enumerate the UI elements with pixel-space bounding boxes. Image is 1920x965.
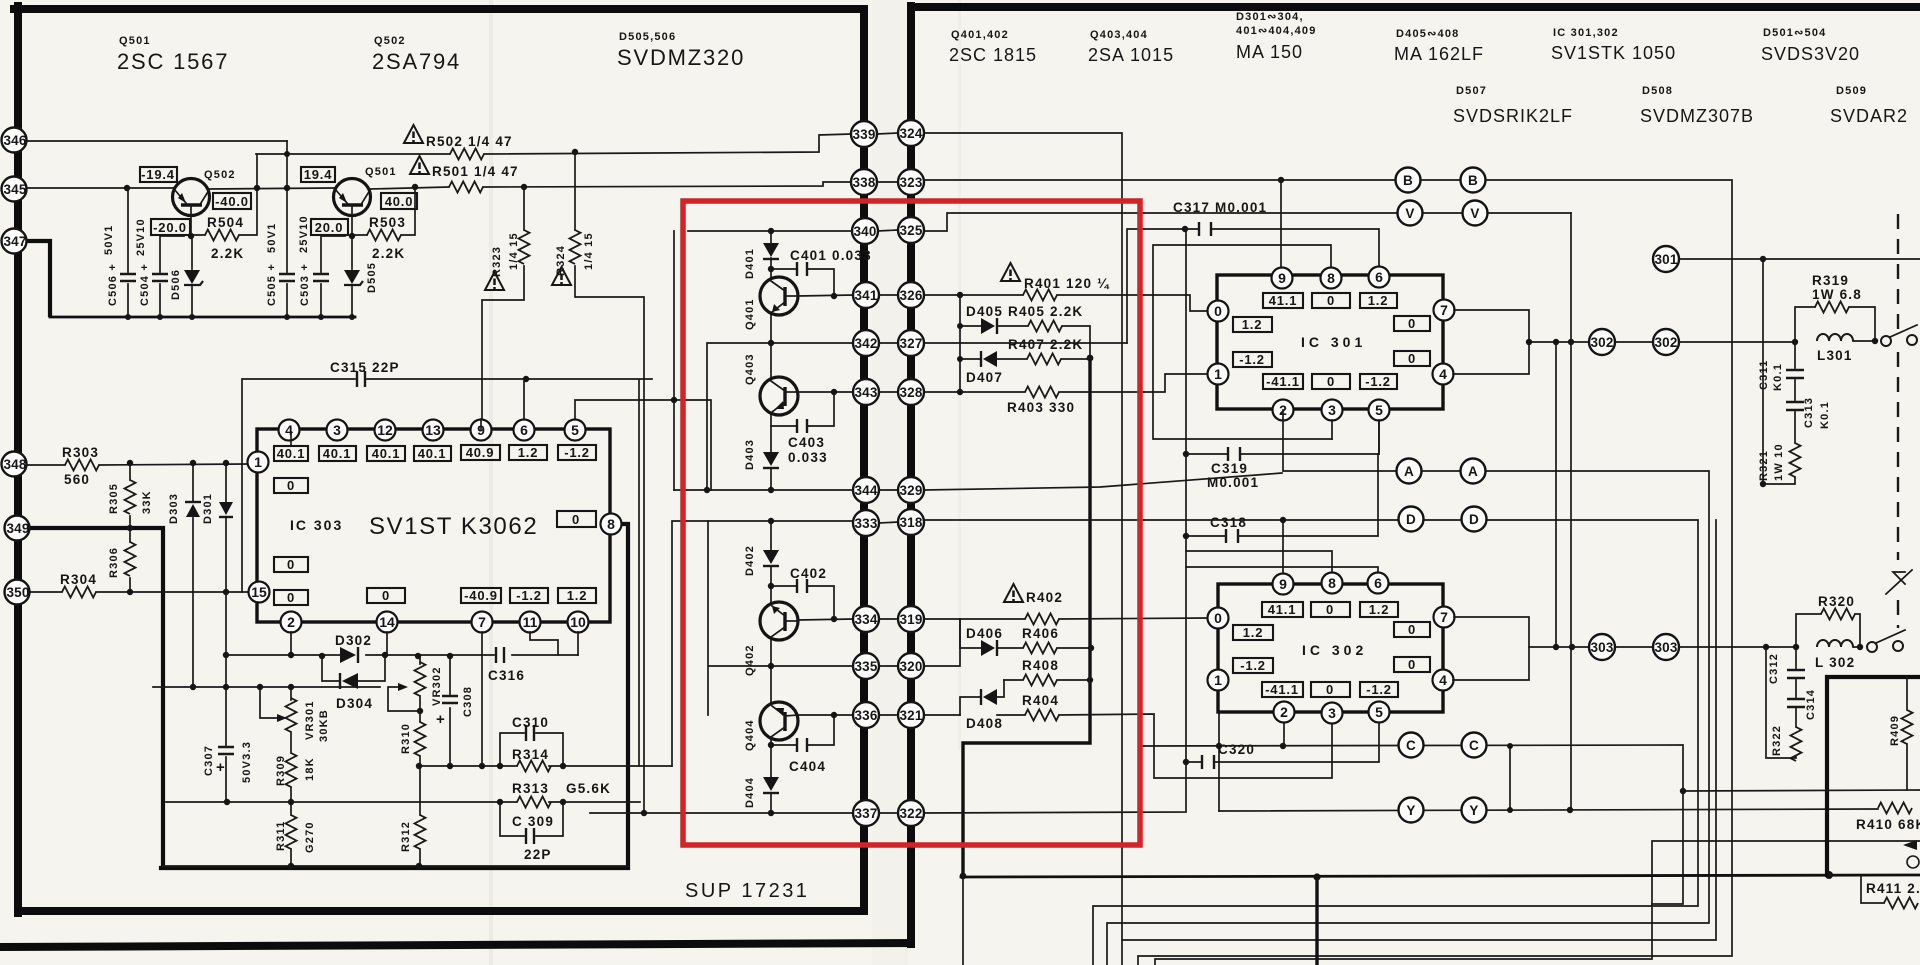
IC302 pin 8 — [1322, 573, 1343, 594]
svg-text:R410 68K: R410 68K — [1856, 817, 1920, 832]
svg-text:50V1: 50V1 — [266, 223, 278, 254]
connector 336 — [853, 702, 879, 728]
svg-text:7: 7 — [1440, 609, 1448, 625]
R313 — [512, 781, 611, 808]
svg-text:K0.1: K0.1 — [1819, 401, 1831, 429]
capacitor C401 — [771, 248, 872, 296]
svg-text:0: 0 — [287, 557, 295, 572]
resistor R502 — [404, 125, 513, 160]
svg-text:Q403: Q403 — [744, 353, 756, 385]
svg-text:-1.2: -1.2 — [564, 445, 590, 460]
svg-text:347: 347 — [3, 234, 26, 249]
301 line — [1679, 259, 1920, 484]
IC303 pin 14 — [377, 612, 398, 633]
connector 323 — [898, 169, 924, 195]
svg-text:5: 5 — [571, 422, 579, 438]
IC302 box 1.2 left — [1233, 625, 1273, 640]
transistor Q502 — [173, 179, 210, 237]
IC301 pin 1 — [1208, 364, 1229, 385]
svg-text:C504 +: C504 + — [139, 263, 151, 306]
IC303 pin 15 — [249, 582, 270, 603]
IC302 box 0 right up — [1394, 622, 1430, 637]
wire row 343 — [798, 391, 853, 393]
svg-text:R322: R322 — [1771, 725, 1783, 756]
main column upper — [770, 231, 772, 490]
connector 347 — [2, 229, 27, 254]
IC302 pin 9 — [1273, 574, 1294, 595]
svg-text:40.1: 40.1 — [323, 446, 352, 461]
wire row 340 — [674, 231, 853, 490]
IC303 value box 1.2 bottom — [558, 588, 596, 603]
thick bottom rail left — [161, 524, 628, 868]
capacitor C317 — [1173, 200, 1267, 236]
svg-text:346: 346 — [3, 133, 26, 148]
connector 334 — [853, 606, 879, 632]
capacitor C307 — [203, 592, 253, 802]
pin6 wire — [523, 379, 525, 419]
D302 line — [226, 654, 578, 656]
connector 349 — [5, 516, 30, 541]
red rectangle — [683, 201, 1140, 845]
svg-text:0: 0 — [1326, 682, 1334, 697]
wire B row — [924, 180, 1732, 965]
pin6 IC302 riser — [1186, 567, 1378, 583]
wire D row — [924, 520, 1698, 965]
IC303 value box 0 right — [557, 511, 596, 527]
wire R502 row — [256, 134, 851, 154]
svg-text:0: 0 — [1214, 303, 1222, 319]
svg-text:-40.9: -40.9 — [464, 588, 498, 603]
svg-text:1: 1 — [1214, 366, 1222, 382]
IC301 pin 4 — [1433, 364, 1454, 385]
svg-text:R406: R406 — [1022, 626, 1059, 641]
svg-text:C403: C403 — [788, 435, 825, 450]
svg-text:M0.001: M0.001 — [1207, 475, 1259, 490]
Y circles — [1399, 798, 1487, 823]
svg-text:R504: R504 — [207, 215, 244, 230]
C312 chain — [1768, 647, 1817, 727]
capacitor C404 — [771, 715, 834, 774]
label Q401,402 2SC1815 — [949, 29, 1037, 65]
svg-text:IC 301: IC 301 — [1301, 334, 1366, 350]
left sheet bottom border — [18, 907, 864, 915]
resistor R401 — [1001, 263, 1110, 301]
connector 333 — [853, 510, 879, 536]
IC303 value box -40.9 — [461, 588, 501, 603]
wire 349 thick — [29, 528, 163, 866]
svg-text:R320: R320 — [1818, 594, 1855, 609]
svg-text:336: 336 — [854, 708, 877, 723]
VR301 — [286, 687, 331, 753]
svg-text:IC 303: IC 303 — [290, 517, 343, 533]
A line — [1107, 410, 1709, 965]
box 40.0 — [381, 193, 417, 209]
connector 339 — [851, 121, 877, 147]
svg-text:D302: D302 — [335, 633, 372, 648]
left sheet left border — [14, 6, 22, 913]
IC303 box — [257, 429, 610, 622]
C309 loop — [500, 802, 563, 862]
resistor R501 — [365, 156, 519, 193]
capacitor C503 — [313, 236, 345, 317]
connector 324 — [898, 120, 924, 146]
connector 319 — [898, 606, 924, 632]
IC303 pin 10 — [568, 612, 589, 633]
svg-text:344: 344 — [854, 483, 877, 498]
svg-text:340: 340 — [853, 224, 876, 239]
svg-text:K0.1: K0.1 — [1772, 363, 1784, 391]
svg-text:D402: D402 — [744, 545, 756, 576]
svg-text:R324: R324 — [555, 245, 567, 276]
svg-text:D505: D505 — [366, 262, 378, 293]
svg-text:560: 560 — [64, 472, 90, 487]
svg-text:5: 5 — [1375, 704, 1383, 720]
svg-text:8: 8 — [607, 516, 615, 532]
R319 parallel — [1795, 273, 1875, 341]
svg-text:D507: D507 — [1456, 85, 1487, 97]
svg-text:D509: D509 — [1836, 85, 1867, 97]
harness filler — [1122, 520, 1716, 940]
svg-text:10: 10 — [570, 614, 586, 630]
svg-text:0: 0 — [1408, 622, 1416, 637]
wire row 334 — [798, 619, 853, 620]
IC303 pin 5 — [565, 420, 586, 441]
svg-text:40.1: 40.1 — [418, 446, 447, 461]
svg-text:-1.2: -1.2 — [1239, 352, 1265, 367]
svg-text:4: 4 — [285, 422, 293, 438]
svg-text:C506 +: C506 + — [107, 263, 119, 306]
capacitor C315 — [242, 360, 652, 766]
svg-text:8: 8 — [1328, 575, 1336, 591]
svg-text:D505,506: D505,506 — [619, 31, 676, 43]
svg-text:335: 335 — [854, 659, 877, 674]
wire R313 row — [166, 801, 640, 803]
svg-text:D508: D508 — [1642, 85, 1673, 97]
svg-text:D403: D403 — [744, 439, 756, 470]
svg-text:Q501: Q501 — [365, 166, 397, 178]
y790 line — [1683, 790, 1920, 791]
svg-text:MA 150: MA 150 — [1236, 42, 1303, 62]
bus pair links — [877, 133, 898, 813]
svg-text:333: 333 — [854, 516, 877, 531]
svg-text:D303: D303 — [168, 493, 180, 524]
svg-text:22P: 22P — [524, 847, 552, 862]
capacitor C320 — [1186, 723, 1379, 769]
ground rail — [50, 316, 355, 319]
svg-text:25V10: 25V10 — [298, 215, 310, 253]
svg-text:C319: C319 — [1211, 461, 1248, 476]
thin drop below C320 — [962, 876, 964, 965]
svg-text:D404: D404 — [744, 777, 756, 808]
switch 302 — [1881, 325, 1917, 346]
transistor Q501 — [334, 179, 371, 237]
svg-text:D301: D301 — [202, 493, 214, 524]
svg-text:3: 3 — [1328, 705, 1336, 721]
IC302 pin 6 — [1368, 573, 1389, 594]
svg-text:R411 2.2: R411 2.2 — [1866, 881, 1920, 896]
wire C row — [1141, 745, 1683, 904]
svg-text:1: 1 — [1214, 672, 1222, 688]
IC301 box 0 right low — [1394, 351, 1430, 366]
svg-text:L301: L301 — [1817, 348, 1853, 363]
svg-text:18K: 18K — [304, 757, 316, 781]
wire 329 row — [924, 245, 1332, 490]
wire row 321 continuation — [924, 714, 1332, 778]
wire row 348 — [27, 464, 248, 465]
dots row348 — [127, 376, 529, 690]
svg-text:50V3.3: 50V3.3 — [241, 741, 253, 783]
connector 320 — [898, 653, 924, 679]
svg-text:+: + — [216, 759, 225, 776]
svg-text:-41.1: -41.1 — [1266, 374, 1300, 389]
resistor R303 — [62, 445, 99, 487]
IC302 boxes bottom — [1262, 682, 1398, 697]
IC303 pin 11 — [520, 612, 541, 633]
capacitor C403 — [771, 392, 834, 465]
svg-text:C317 M0.001: C317 M0.001 — [1173, 200, 1267, 215]
B circles — [1396, 168, 1486, 193]
wire 327 row — [924, 342, 1127, 344]
IC302 right loop — [1453, 617, 1529, 680]
svg-text:325: 325 — [899, 223, 922, 238]
svg-text:G5.6K: G5.6K — [566, 781, 611, 796]
IC302 pin 7 — [1434, 607, 1455, 628]
svg-text:328: 328 — [899, 385, 922, 400]
svg-text:324: 324 — [899, 126, 922, 141]
svg-text:0: 0 — [1408, 316, 1416, 331]
IC303 pin 4 — [279, 420, 300, 441]
svg-text:D: D — [1406, 512, 1416, 527]
svg-text:318: 318 — [899, 515, 922, 530]
IC303 pin 7 — [472, 612, 493, 633]
wire 324 long — [924, 133, 1122, 965]
svg-text:R403 330: R403 330 — [1007, 400, 1075, 415]
thick drop right — [1315, 877, 1318, 965]
svg-text:-1.2: -1.2 — [1365, 374, 1391, 389]
svg-text:R319: R319 — [1812, 273, 1849, 288]
svg-text:337: 337 — [854, 806, 877, 821]
svg-text:1.2: 1.2 — [518, 445, 538, 460]
svg-text:326: 326 — [899, 288, 922, 303]
svg-text:0.033: 0.033 — [788, 450, 828, 465]
svg-text:30KB: 30KB — [318, 709, 330, 742]
svg-text:-20.0: -20.0 — [153, 220, 187, 235]
svg-text:9: 9 — [1278, 270, 1286, 286]
wire row 333 — [672, 521, 854, 766]
svg-text:R303: R303 — [62, 445, 99, 460]
connector 321 — [898, 702, 924, 728]
svg-text:342: 342 — [854, 336, 877, 351]
R321 — [1758, 443, 1801, 484]
svg-text:320: 320 — [899, 659, 922, 674]
svg-text:D304: D304 — [336, 696, 373, 711]
paper fold shading — [489, 0, 961, 965]
svg-text:323: 323 — [899, 175, 922, 190]
svg-text:3: 3 — [1328, 402, 1336, 418]
dot y790 — [1680, 788, 1686, 794]
svg-text:2.2K: 2.2K — [211, 246, 244, 261]
svg-text:C: C — [1406, 738, 1416, 753]
svg-text:V: V — [1470, 206, 1479, 221]
svg-text:321: 321 — [899, 708, 922, 723]
IC301 pin 8 — [1321, 268, 1342, 289]
wire row 320 — [924, 619, 960, 666]
svg-text:Y: Y — [1469, 803, 1478, 818]
R310 — [400, 722, 426, 766]
label D301~304 401~404,409 MA150 — [1236, 11, 1317, 62]
connector 340 — [852, 218, 878, 244]
wire V row — [924, 213, 1571, 647]
IC303 pin 2 — [281, 612, 302, 633]
red box dots — [671, 228, 837, 816]
connector 343 — [853, 379, 879, 405]
302 conn circles — [1589, 329, 1679, 355]
resistor R324 — [552, 152, 644, 813]
wire row 350 — [29, 591, 247, 593]
svg-text:D401: D401 — [744, 248, 756, 279]
svg-text:C320: C320 — [1218, 742, 1255, 757]
svg-text:C503 +: C503 + — [299, 263, 311, 306]
pin9 wire — [480, 419, 482, 430]
svg-text:R321: R321 — [1758, 450, 1770, 481]
connector 325 — [898, 217, 924, 243]
Y feed vertical — [1218, 713, 1220, 811]
connector 345 — [2, 177, 27, 202]
svg-text:SVDS3V20: SVDS3V20 — [1761, 44, 1860, 64]
diode D402 — [744, 545, 779, 576]
svg-text:0: 0 — [1326, 602, 1334, 617]
R311 — [275, 802, 316, 866]
svg-text:2: 2 — [287, 614, 295, 630]
svg-text:40.1: 40.1 — [372, 446, 401, 461]
capacitor C402 — [771, 566, 834, 619]
diode D401 — [744, 243, 779, 279]
svg-text:40.0: 40.0 — [385, 194, 414, 209]
svg-text:11: 11 — [523, 614, 538, 630]
svg-text:C308: C308 — [462, 686, 474, 717]
R309 — [275, 753, 316, 802]
bus line 2 — [907, 6, 915, 944]
diode D404 — [744, 777, 779, 808]
pin11 drop — [530, 632, 558, 655]
capacitor C316 — [488, 647, 525, 683]
303 conn circles — [1589, 634, 1679, 660]
svg-text:327: 327 — [899, 336, 922, 351]
diode D303 — [168, 464, 201, 687]
svg-text:R402: R402 — [1026, 590, 1063, 605]
dots bottom left — [223, 652, 566, 869]
pin5 wire — [575, 400, 711, 490]
IC301 box 0 right up — [1394, 316, 1430, 331]
box 19.4 — [301, 167, 335, 182]
inductor L302 — [1815, 640, 1855, 670]
transistor Q401 — [744, 277, 798, 330]
svg-text:1/4 15: 1/4 15 — [583, 232, 595, 270]
dots 303 area — [1763, 644, 1863, 650]
svg-text:40.9: 40.9 — [466, 445, 495, 460]
svg-text:0: 0 — [1327, 374, 1335, 389]
svg-text:R323: R323 — [491, 246, 503, 277]
zener D506 — [184, 236, 203, 317]
svg-text:0: 0 — [1327, 293, 1335, 308]
svg-text:0: 0 — [287, 478, 295, 493]
svg-text:VR301: VR301 — [304, 700, 316, 740]
connector 318 — [898, 509, 924, 535]
thick drop from R407 — [963, 358, 1090, 876]
IC301 box -1.2 left — [1233, 352, 1272, 367]
303 line — [1529, 646, 1862, 648]
svg-text:1.2: 1.2 — [567, 588, 587, 603]
svg-text:0: 0 — [572, 512, 580, 527]
svg-text:SUP 17231: SUP 17231 — [685, 880, 809, 902]
svg-text:R304: R304 — [60, 572, 97, 587]
D405 branch — [960, 295, 1090, 392]
svg-text:0: 0 — [287, 590, 295, 605]
wire R402 row — [924, 618, 1208, 619]
R312 — [400, 766, 426, 866]
svg-text:1: 1 — [254, 454, 262, 470]
capacitor C319 — [1186, 420, 1379, 490]
svg-text:1.2: 1.2 — [1368, 293, 1388, 308]
R322 — [1766, 647, 1802, 761]
resistor R504 — [191, 154, 260, 261]
pin10 drop — [577, 632, 579, 655]
transistor Q404 — [744, 702, 798, 751]
svg-text:C 309: C 309 — [512, 814, 554, 829]
svg-text:401∾404,409: 401∾404,409 — [1236, 25, 1317, 37]
svg-text:7: 7 — [478, 614, 486, 630]
svg-text:SVDMZ307B: SVDMZ307B — [1640, 106, 1754, 126]
dashed switch slash — [1886, 570, 1912, 594]
IC301 pin 0 — [1208, 301, 1229, 322]
svg-text:-40.0: -40.0 — [215, 194, 249, 209]
svg-text:SVDSRIK2LF: SVDSRIK2LF — [1453, 106, 1573, 126]
diode D301 — [202, 464, 233, 592]
svg-text:341: 341 — [854, 288, 877, 303]
capacitor C308 — [436, 656, 474, 766]
svg-text:8: 8 — [1327, 270, 1335, 286]
svg-text:Q402: Q402 — [744, 644, 756, 676]
svg-text:+: + — [436, 711, 445, 728]
IC301 pin 3 — [1322, 400, 1343, 421]
resistor R503 — [352, 187, 415, 261]
wire row 341 — [798, 295, 853, 296]
IC303 value box 0 mid left — [274, 557, 308, 572]
dots 302 area — [1526, 256, 1878, 813]
V circles — [1398, 201, 1488, 226]
svg-text:2SA794: 2SA794 — [372, 49, 461, 74]
svg-text:SV1ST K3062: SV1ST K3062 — [369, 513, 538, 540]
svg-text:R310: R310 — [400, 723, 412, 754]
diode D304 loop — [322, 655, 385, 711]
pin2 drop — [290, 432, 292, 655]
302 line — [1529, 341, 1875, 342]
svg-text:2SA 1015: 2SA 1015 — [1088, 45, 1174, 65]
pin7 drop — [481, 632, 483, 766]
svg-text:0: 0 — [1408, 657, 1416, 672]
IC303 pin 6 — [514, 420, 535, 441]
svg-text:1/4 15: 1/4 15 — [508, 232, 520, 270]
IC301 pin 7 — [1434, 300, 1455, 321]
svg-text:15: 15 — [251, 584, 267, 600]
label Q502 2SA794 — [372, 35, 461, 74]
svg-text:2SC 1567: 2SC 1567 — [117, 49, 229, 74]
svg-text:V: V — [1405, 206, 1414, 221]
svg-text:G270: G270 — [304, 821, 316, 853]
svg-text:33K: 33K — [141, 490, 153, 514]
svg-text:C313: C313 — [1803, 397, 1815, 428]
bus line 1 — [860, 9, 868, 911]
